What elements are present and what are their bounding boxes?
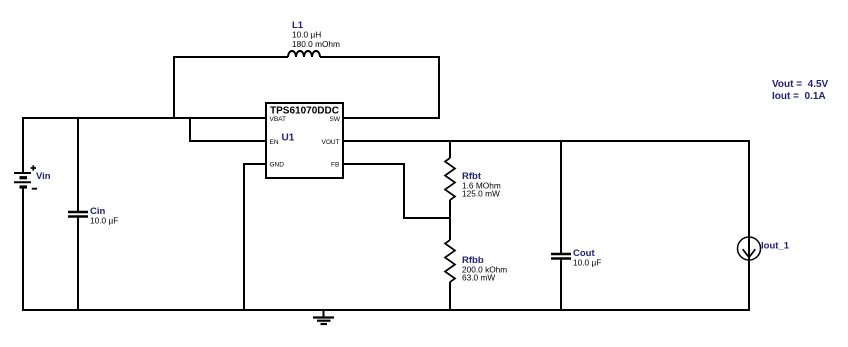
wire: Rfbt top lead	[449, 141, 451, 158]
wire: battery bottom lead	[22, 189, 24, 312]
wire: output right branch down to load	[748, 140, 750, 311]
wire: input top rail from battery to VBAT pin	[22, 117, 266, 119]
svg-text:63.0 mW: 63.0 mW	[462, 273, 495, 283]
resistor Rfbt	[445, 158, 501, 200]
svg-text:Iout_1: Iout_1	[761, 241, 790, 252]
wire: L1 left leg up from input rail	[174, 57, 288, 118]
wire: Cin bottom lead	[77, 217, 79, 312]
svg-text:Vin: Vin	[36, 171, 51, 182]
wire: L1 right leg down to SW pin	[320, 57, 439, 118]
current source Iout_1	[738, 237, 790, 260]
wire: Rfbt bottom lead to FB node	[449, 200, 451, 218]
svg-text:EN: EN	[270, 139, 279, 146]
svg-text:VBAT: VBAT	[270, 116, 287, 123]
wire: Cout bottom lead	[560, 259, 562, 312]
battery Vin	[14, 165, 51, 188]
svg-text:U1: U1	[282, 133, 295, 144]
wire: GND pin to ground rail	[244, 164, 266, 311]
svg-text:FB: FB	[331, 162, 339, 169]
wire: VOUT rail	[343, 140, 750, 142]
capacitor Cin	[68, 206, 118, 226]
wire: Cout top lead	[560, 140, 562, 254]
wire: FB feedback run	[343, 164, 451, 218]
inductor L1	[288, 20, 340, 57]
node annotation: Vout / Iout values	[772, 79, 829, 102]
capacitor Cout	[551, 248, 601, 268]
op-amp U1 TPS61070DDC	[266, 103, 343, 178]
svg-text:GND: GND	[270, 162, 285, 169]
svg-text:SW: SW	[330, 116, 341, 123]
wire: Rfbb bottom lead	[449, 282, 451, 311]
ground	[313, 310, 334, 324]
svg-text:10.0 µF: 10.0 µF	[573, 258, 601, 268]
svg-text:10.0 µH: 10.0 µH	[292, 30, 321, 40]
svg-text:10.0 µF: 10.0 µF	[90, 216, 118, 226]
wire: Cin top lead	[77, 117, 79, 212]
wire: EN branch from input rail	[190, 117, 266, 141]
wire: Rfbb top lead	[449, 218, 451, 240]
svg-text:180.0 mOhm: 180.0 mOhm	[292, 39, 340, 49]
resistor Rfbb	[445, 240, 507, 283]
svg-text:VOUT: VOUT	[322, 139, 340, 146]
svg-text:125.0 mW: 125.0 mW	[462, 189, 500, 199]
svg-text:Vout = 4.5V: Vout = 4.5V	[772, 79, 829, 90]
svg-text:TPS61070DDC: TPS61070DDC	[270, 106, 339, 117]
wire: bottom ground rail	[22, 309, 750, 311]
svg-text:Iout = 0.1A: Iout = 0.1A	[772, 91, 826, 102]
wire: battery top lead	[22, 117, 24, 172]
